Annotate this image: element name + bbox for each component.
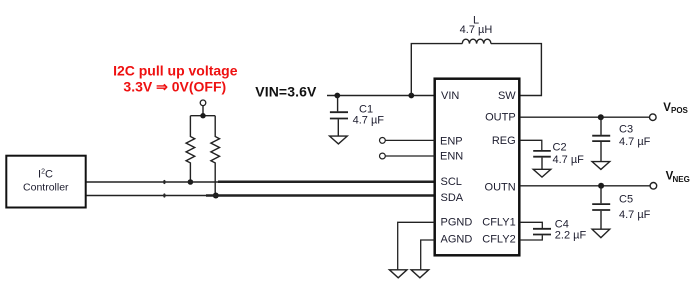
svg-text:SDA: SDA <box>441 192 464 204</box>
ground (PGND) <box>389 270 407 278</box>
junction: VIN / C1 <box>334 93 340 99</box>
capacitor C3 <box>592 117 610 161</box>
inductor L loop wires <box>411 44 541 96</box>
ground (AGND) <box>411 270 429 278</box>
svg-text:C3: C3 <box>619 124 633 136</box>
wire: REG to C2 <box>520 140 542 150</box>
wire: SCL thick bus segment to IC <box>218 181 435 184</box>
junction: pull-up node <box>200 113 205 118</box>
svg-text:SW: SW <box>498 90 516 102</box>
VPOS label <box>663 102 688 115</box>
C3 value label <box>619 124 651 148</box>
svg-text:VIN=3.6V: VIN=3.6V <box>255 84 317 100</box>
wire: ENN <box>385 155 434 157</box>
U1 right pin labels <box>482 90 516 245</box>
svg-text:4.7 µH: 4.7 µH <box>460 24 493 36</box>
svg-text:NEG: NEG <box>673 175 690 184</box>
ground (C5) <box>592 229 610 237</box>
svg-text:PGND: PGND <box>441 217 473 229</box>
junction: OUTN / C5 <box>598 183 604 189</box>
C4 value label <box>555 218 587 241</box>
svg-text:CFLY2: CFLY2 <box>482 233 515 245</box>
wire: CFLY1 to C4 <box>520 222 542 228</box>
svg-text:C5: C5 <box>619 193 633 205</box>
svg-text:ENN: ENN <box>440 151 463 163</box>
svg-text:4.7 µF: 4.7 µF <box>619 136 651 148</box>
junction: VIN / L <box>408 93 414 99</box>
svg-text:4.7 µF: 4.7 µF <box>553 154 585 166</box>
pull-up supply terminal (open circle) <box>200 100 206 106</box>
annotation: I2C pull up voltage 3.3V => 0V(OFF) <box>113 63 238 95</box>
svg-text:AGND: AGND <box>441 233 473 245</box>
svg-text:4.7 µF: 4.7 µF <box>619 209 651 221</box>
svg-text:SCL: SCL <box>441 176 462 188</box>
C5 value label <box>619 193 651 221</box>
svg-text:OUTP: OUTP <box>485 112 516 124</box>
ground (C3) <box>592 162 610 170</box>
wire: CFLY2 to C4 <box>520 235 542 240</box>
wire: ENP <box>385 139 434 141</box>
wire: terminal to resistor bar <box>190 106 215 116</box>
junction: R1 to SCL <box>188 179 194 185</box>
wire: OUTN rail to VNEG <box>520 185 650 187</box>
svg-text:4.7 µF: 4.7 µF <box>353 115 385 127</box>
ground (C2) <box>533 169 551 177</box>
C1 value label <box>353 103 385 126</box>
svg-text:OUTN: OUTN <box>485 181 516 193</box>
svg-text:V: V <box>663 102 671 114</box>
svg-text:VIN: VIN <box>441 90 459 102</box>
svg-text:CFLY1: CFLY1 <box>482 217 515 229</box>
I2C controller box <box>6 156 85 208</box>
svg-text:I2C pull up voltage: I2C pull up voltage <box>113 63 238 79</box>
VNEG label <box>666 171 690 185</box>
I2C controller label <box>23 169 69 194</box>
C2 value label <box>553 141 585 166</box>
capacitor C5 <box>592 186 610 229</box>
wire: PGND <box>398 222 435 269</box>
capacitor C2 <box>533 151 551 169</box>
capacitor C4 <box>533 229 551 235</box>
ENN terminal (open circle) <box>380 153 386 159</box>
svg-text:3.3V ⇒ 0V(OFF): 3.3V ⇒ 0V(OFF) <box>123 79 226 95</box>
VIN net label <box>255 84 317 100</box>
junction: OUTP / C3 <box>598 114 604 120</box>
junction: R2 to SDA <box>213 193 219 199</box>
U1 left pin labels <box>440 90 472 245</box>
wire: AGND <box>421 240 435 269</box>
inductor L label <box>460 15 493 36</box>
wire: OUTP rail to VPOS <box>520 116 650 118</box>
ENP terminal (open circle) <box>380 138 386 144</box>
wire: SDA thick bus segment to IC <box>206 194 435 197</box>
tick mark on SCL <box>163 180 165 184</box>
wire: SCL thin segment from controller <box>87 181 219 183</box>
svg-text:POS: POS <box>671 106 689 115</box>
tick mark on SDA <box>163 193 165 197</box>
svg-text:C2: C2 <box>553 141 567 153</box>
wire: SDA thin segment from controller <box>87 195 213 197</box>
svg-text:REG: REG <box>492 135 516 147</box>
wire: VIN rail <box>327 95 435 97</box>
svg-text:C1: C1 <box>359 103 373 115</box>
svg-text:Controller: Controller <box>23 182 69 194</box>
resistor R2 (SDA pull-up) <box>211 116 220 196</box>
svg-text:I2C: I2C <box>38 169 53 181</box>
svg-text:2.2 µF: 2.2 µF <box>555 230 587 242</box>
VNEG terminal (open circle) <box>650 183 657 190</box>
svg-text:C4: C4 <box>555 218 569 230</box>
inductor L coil <box>462 39 491 43</box>
op IC U1 (DC-DC converter) <box>435 79 520 256</box>
VPOS terminal (open circle) <box>650 114 657 121</box>
resistor R1 (SCL pull-up) <box>186 116 195 182</box>
capacitor C1 <box>330 96 348 136</box>
svg-text:ENP: ENP <box>440 135 463 147</box>
ground (C1) <box>330 136 348 144</box>
